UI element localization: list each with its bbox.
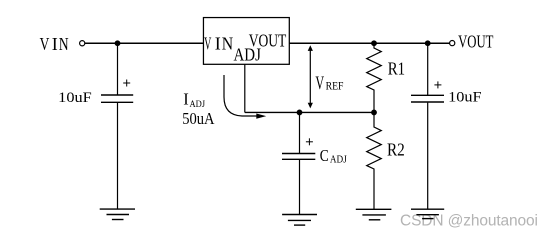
svg-text:50uA: 50uA bbox=[182, 109, 215, 128]
svg-text:ADJ: ADJ bbox=[234, 45, 261, 65]
capacitor C1 plates bbox=[101, 94, 133, 96]
svg-text:V: V bbox=[315, 73, 324, 94]
VREF arrow shaft bbox=[309, 49, 311, 106]
junction node (R1 top) bbox=[371, 40, 377, 46]
wire C1 branch bottom bbox=[117, 103, 119, 209]
svg-text:V: V bbox=[40, 34, 50, 54]
wire ADJ horizontal bbox=[245, 111, 374, 113]
wire CADJ branch bottom bbox=[299, 160, 301, 215]
op-amp/regulator box U1 bbox=[203, 18, 289, 65]
wire box to VOUT terminal bbox=[289, 42, 450, 44]
svg-text:I: I bbox=[183, 89, 189, 108]
junction node (C1 / VIN wire) bbox=[115, 40, 121, 46]
capacitor C2 plates bbox=[411, 94, 444, 96]
wire CADJ branch top bbox=[299, 112, 301, 153]
ground (R2) bbox=[356, 209, 392, 220]
wire C1 branch top bbox=[117, 43, 119, 95]
ground (left, C1) bbox=[100, 209, 135, 219]
svg-text:N: N bbox=[59, 34, 69, 54]
resistor R2 bbox=[367, 112, 382, 209]
capacitor CADJ plates bbox=[282, 153, 315, 155]
plus sign C1 bbox=[123, 80, 130, 87]
svg-text:I: I bbox=[215, 34, 221, 54]
junction node (CADJ / ADJ line) bbox=[297, 110, 303, 116]
svg-text:V: V bbox=[204, 34, 211, 54]
terminal VIN circle bbox=[80, 41, 85, 46]
svg-text:10uF: 10uF bbox=[448, 90, 482, 106]
junction node (C2 top) bbox=[425, 40, 431, 46]
resistor R1 bbox=[367, 43, 382, 112]
arrowhead VREF top bbox=[308, 45, 313, 51]
svg-text:10uF: 10uF bbox=[58, 90, 91, 106]
svg-text:R1: R1 bbox=[388, 59, 405, 79]
wire C2 branch bottom bbox=[427, 103, 429, 210]
wire VIN terminal to regulator box bbox=[85, 42, 204, 44]
svg-text:R2: R2 bbox=[387, 139, 405, 159]
svg-text:C: C bbox=[320, 146, 329, 165]
terminal VOUT circle bbox=[450, 41, 455, 46]
plus sign C2 bbox=[434, 81, 441, 88]
svg-text:REF: REF bbox=[326, 78, 344, 92]
current arrow IADJ curve bbox=[224, 75, 257, 116]
svg-text:VOUT: VOUT bbox=[458, 32, 493, 52]
ground (CADJ) bbox=[282, 215, 317, 226]
junction node (R2 top) bbox=[371, 110, 377, 116]
wire C2 branch top bbox=[427, 43, 429, 95]
svg-text:N: N bbox=[222, 34, 233, 54]
plus sign CADJ bbox=[306, 138, 313, 145]
ground (C2) bbox=[411, 209, 444, 218]
arrowhead IADJ bbox=[256, 114, 266, 119]
svg-text:ADJ: ADJ bbox=[330, 155, 347, 166]
wire ADJ pin down bbox=[244, 64, 246, 112]
svg-text:I: I bbox=[52, 34, 58, 54]
arrowhead VREF bottom bbox=[308, 103, 313, 109]
